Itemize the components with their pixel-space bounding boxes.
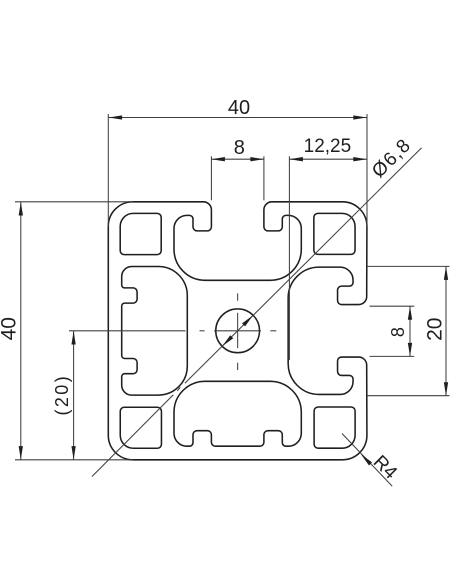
closed bottom T-slot cavity (174, 381, 301, 446)
extension line dimension 12,25 (288, 156, 290, 360)
svg-text:20: 20 (424, 318, 447, 341)
corner cavity bottom-right (314, 407, 355, 448)
extension lines right dimension 20 (367, 265, 450, 267)
svg-text:40: 40 (228, 97, 250, 119)
dimension 12,25 (289, 158, 366, 160)
dimension 20 right (445, 266, 447, 395)
dimension 40 left (20, 202, 22, 460)
extension lines right dimension 8 (370, 305, 415, 307)
vertical centerline (237, 293, 239, 370)
diameter dimension arrows on center bore (242, 315, 253, 326)
extension lines top dimension 40 (107, 114, 109, 226)
extension lines left dimension 40 (15, 201, 133, 203)
extension lines top slot dimension 8 (210, 156, 212, 200)
svg-text:8: 8 (234, 137, 245, 159)
closed-slot D cavity left (122, 267, 188, 396)
dimension 40 top (109, 117, 367, 119)
corner cavity bottom-left (120, 407, 161, 448)
leader radius R4 (342, 434, 392, 487)
corner cavity top-left (120, 213, 161, 254)
dimension 8 top slot (211, 158, 264, 160)
svg-text:12,25: 12,25 (304, 136, 352, 157)
corner cavity top-right (314, 213, 355, 254)
svg-text:(20): (20) (52, 374, 72, 416)
profile outline 40x40 extrusion (108, 202, 367, 460)
center bore circle (216, 309, 260, 353)
dimension 8 right slot (409, 306, 411, 356)
svg-text:8: 8 (388, 327, 408, 337)
diagonal centerline / diameter dimension line (92, 148, 422, 477)
svg-text:40: 40 (0, 317, 21, 340)
horizontal centerline (69, 330, 276, 332)
dimension (20) left (73, 331, 75, 460)
